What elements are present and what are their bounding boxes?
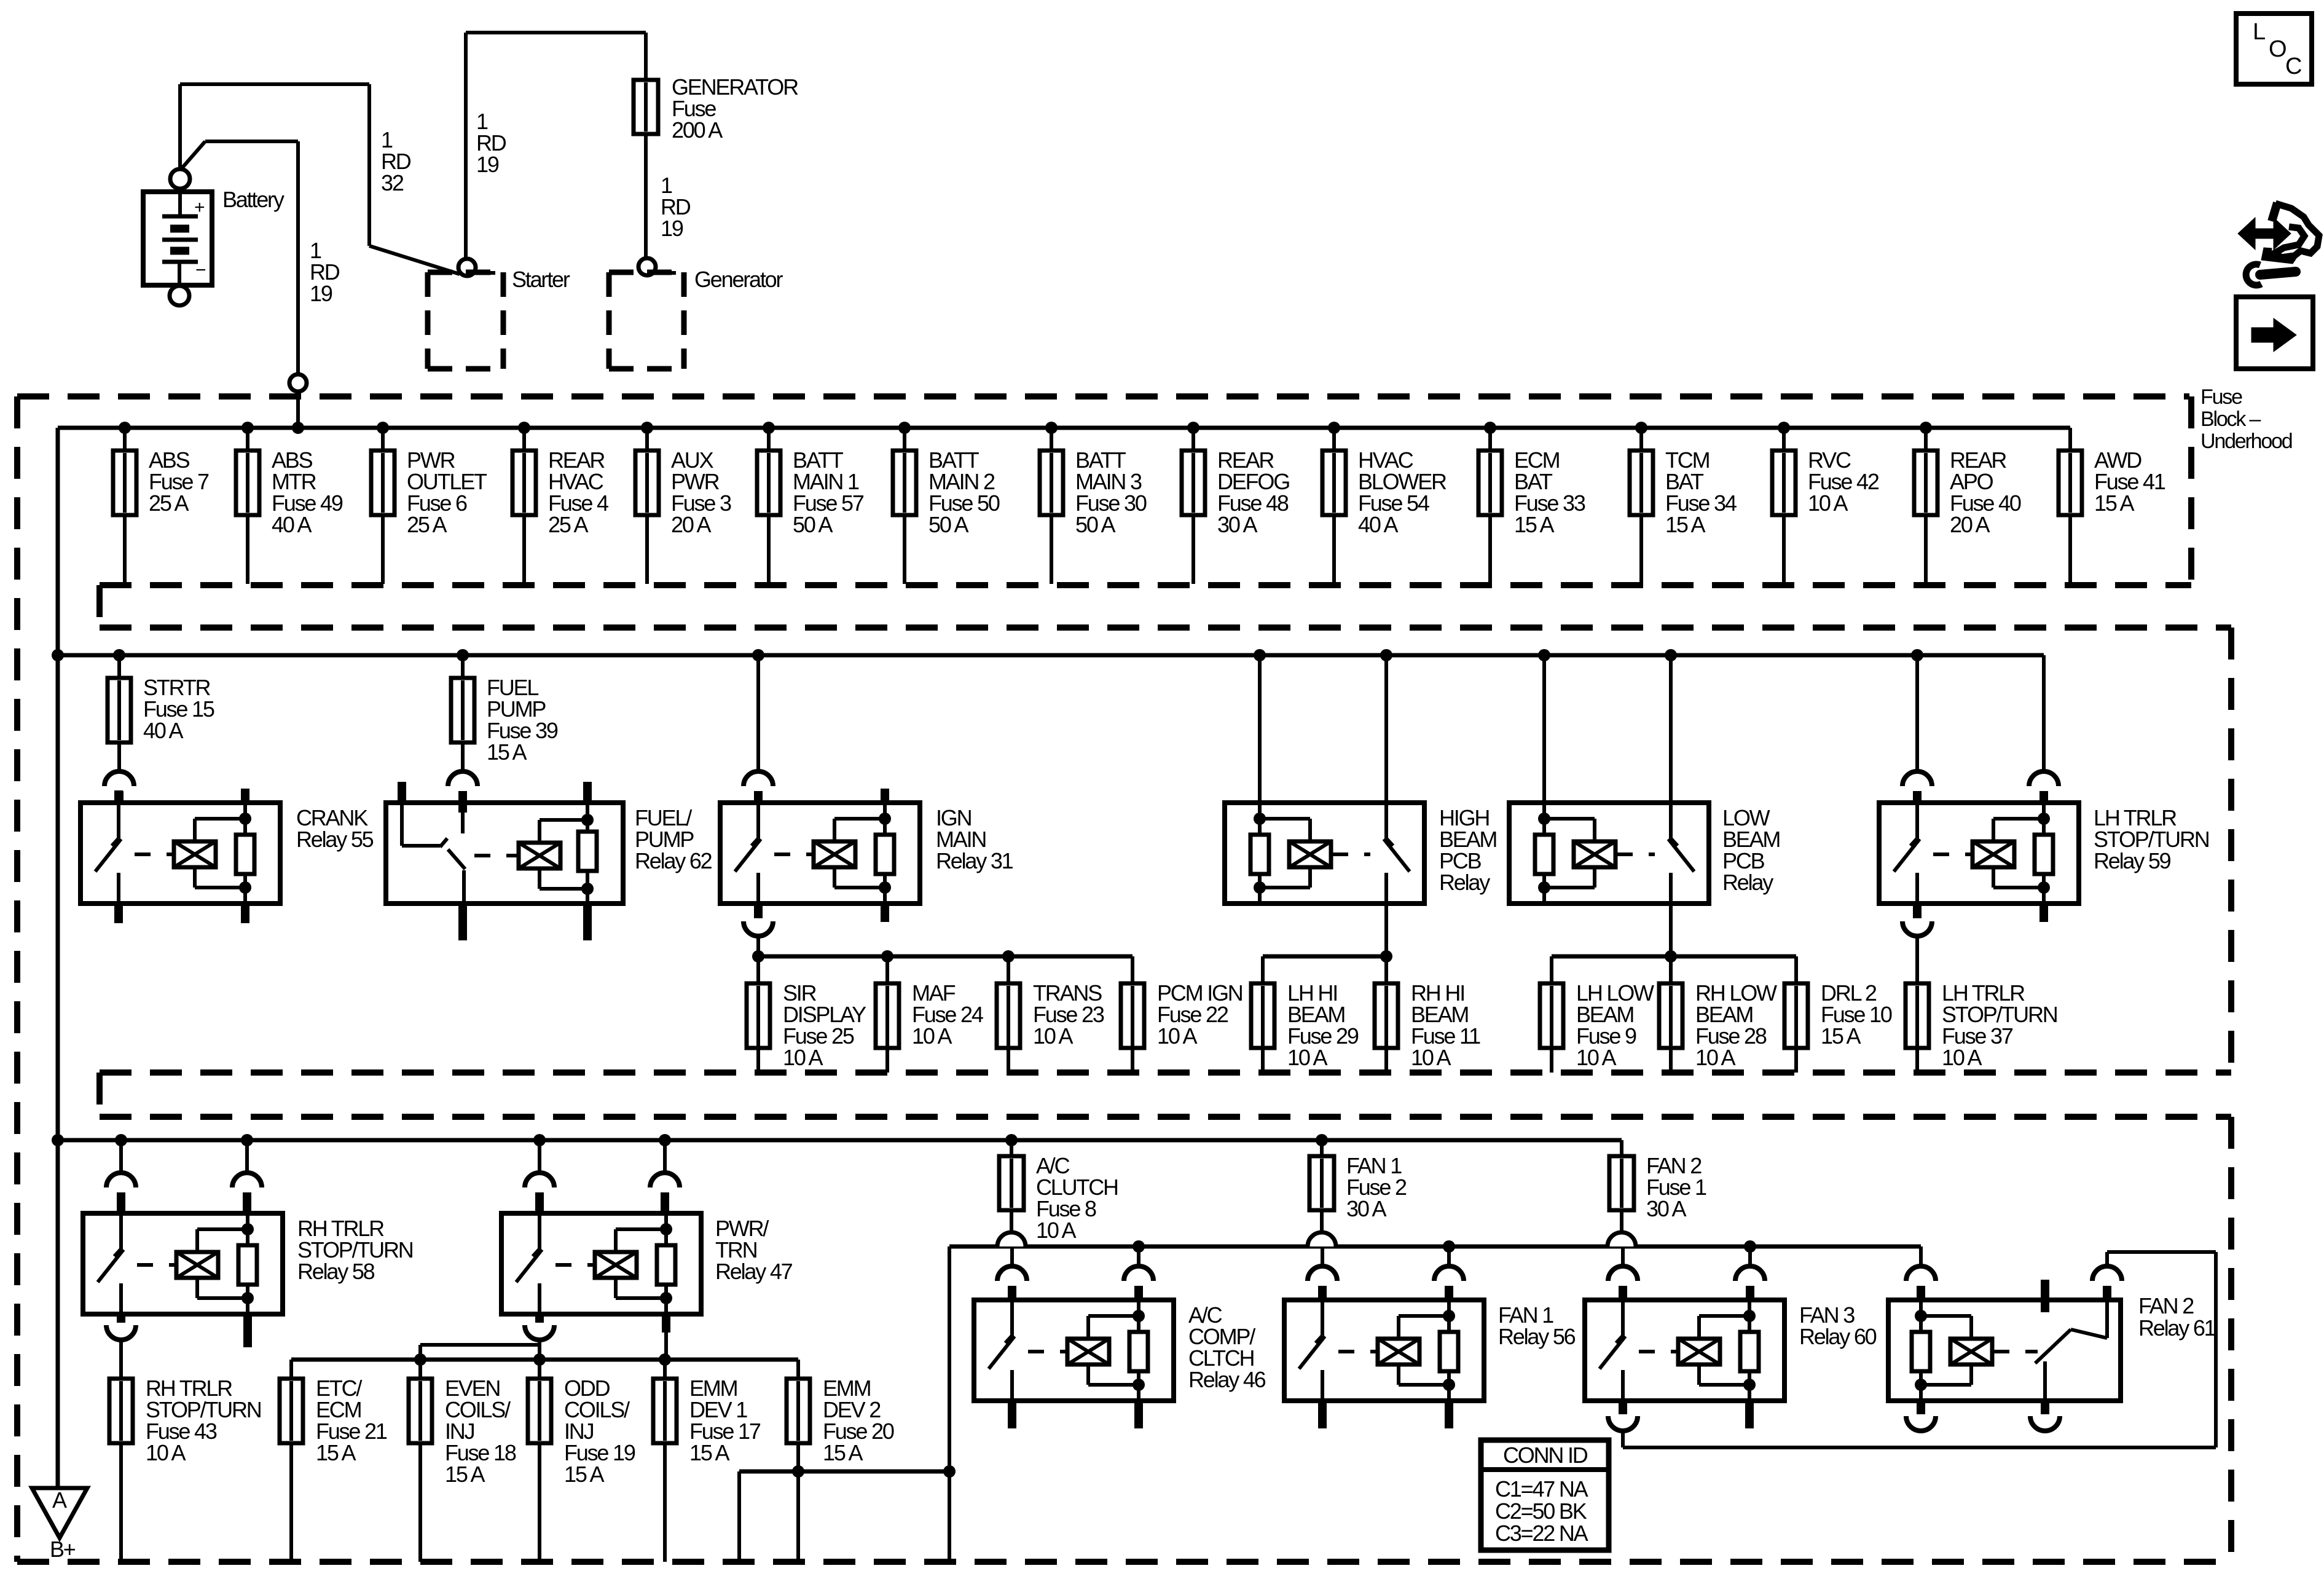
svg-text:+: +	[194, 197, 205, 218]
svg-text:10 A: 10 A	[1808, 490, 1848, 516]
svg-text:Relay: Relay	[1722, 870, 1773, 895]
svg-text:−: −	[195, 260, 206, 280]
svg-text:15 A: 15 A	[445, 1462, 485, 1487]
svg-text:Relay 62: Relay 62	[635, 848, 712, 873]
svg-text:10 A: 10 A	[1411, 1045, 1451, 1070]
svg-text:10 A: 10 A	[912, 1023, 952, 1049]
svg-text:L: L	[2253, 19, 2265, 45]
svg-text:A: A	[52, 1487, 67, 1513]
svg-text:15 A: 15 A	[689, 1440, 729, 1465]
svg-text:25 A: 25 A	[149, 490, 189, 516]
svg-text:C3=22 NA: C3=22 NA	[1495, 1521, 1588, 1546]
svg-text:32: 32	[381, 170, 404, 195]
svg-text:C2=50 BK: C2=50 BK	[1495, 1498, 1587, 1524]
svg-text:30 A: 30 A	[1217, 512, 1257, 537]
svg-text:Relay 46: Relay 46	[1188, 1367, 1266, 1392]
svg-text:Relay 31: Relay 31	[936, 848, 1013, 873]
svg-text:CONN ID: CONN ID	[1503, 1443, 1588, 1468]
svg-text:Battery: Battery	[222, 187, 285, 212]
svg-text:40 A: 40 A	[1358, 512, 1398, 537]
svg-text:10 A: 10 A	[1942, 1045, 1982, 1070]
svg-text:25 A: 25 A	[548, 512, 588, 537]
svg-text:Starter: Starter	[512, 267, 570, 292]
svg-text:10 A: 10 A	[1576, 1045, 1616, 1070]
svg-text:10 A: 10 A	[1287, 1045, 1327, 1070]
svg-text:15 A: 15 A	[564, 1462, 604, 1487]
svg-text:Relay 60: Relay 60	[1799, 1324, 1877, 1349]
svg-text:40 A: 40 A	[143, 718, 183, 743]
svg-text:19: 19	[661, 216, 683, 241]
svg-text:Fuse: Fuse	[2200, 385, 2242, 409]
svg-text:C: C	[2285, 53, 2301, 79]
svg-text:10 A: 10 A	[783, 1045, 823, 1070]
svg-text:15 A: 15 A	[1665, 512, 1705, 537]
svg-text:19: 19	[476, 152, 499, 177]
svg-text:10 A: 10 A	[1033, 1023, 1073, 1049]
svg-text:20 A: 20 A	[671, 512, 711, 537]
svg-text:10 A: 10 A	[1157, 1023, 1197, 1049]
svg-text:10 A: 10 A	[146, 1440, 186, 1465]
svg-text:200 A: 200 A	[672, 117, 723, 143]
svg-text:30 A: 30 A	[1646, 1196, 1686, 1221]
svg-text:15 A: 15 A	[1821, 1023, 1861, 1049]
svg-text:15 A: 15 A	[316, 1440, 356, 1465]
svg-text:Underhood: Underhood	[2200, 430, 2292, 453]
svg-text:Relay: Relay	[1439, 870, 1490, 895]
svg-text:Relay 58: Relay 58	[297, 1259, 375, 1284]
svg-text:10 A: 10 A	[1695, 1045, 1735, 1070]
svg-text:40 A: 40 A	[272, 512, 312, 537]
svg-text:15 A: 15 A	[2094, 490, 2134, 516]
svg-text:30 A: 30 A	[1346, 1196, 1386, 1221]
svg-text:10 A: 10 A	[1036, 1218, 1076, 1243]
svg-text:50 A: 50 A	[793, 512, 833, 537]
svg-text:C1=47 NA: C1=47 NA	[1495, 1476, 1588, 1502]
svg-text:Relay 56: Relay 56	[1498, 1324, 1576, 1349]
svg-text:Relay 59: Relay 59	[2094, 848, 2171, 873]
svg-text:Relay 55: Relay 55	[296, 827, 374, 852]
svg-text:Block –: Block –	[2200, 408, 2261, 431]
svg-text:20 A: 20 A	[1950, 512, 1990, 537]
svg-text:O: O	[2269, 36, 2286, 62]
svg-text:Generator: Generator	[694, 267, 783, 292]
svg-text:15 A: 15 A	[487, 739, 527, 765]
svg-text:Relay 47: Relay 47	[715, 1259, 793, 1284]
svg-text:FAN 2: FAN 2	[2138, 1293, 2194, 1318]
svg-text:25 A: 25 A	[407, 512, 447, 537]
svg-text:50 A: 50 A	[928, 512, 968, 537]
svg-text:19: 19	[310, 281, 332, 306]
svg-text:15 A: 15 A	[1514, 512, 1554, 537]
svg-text:Relay 61: Relay 61	[2138, 1315, 2216, 1341]
svg-text:15 A: 15 A	[823, 1440, 863, 1465]
svg-text:B+: B+	[50, 1537, 76, 1562]
svg-text:50 A: 50 A	[1075, 512, 1115, 537]
